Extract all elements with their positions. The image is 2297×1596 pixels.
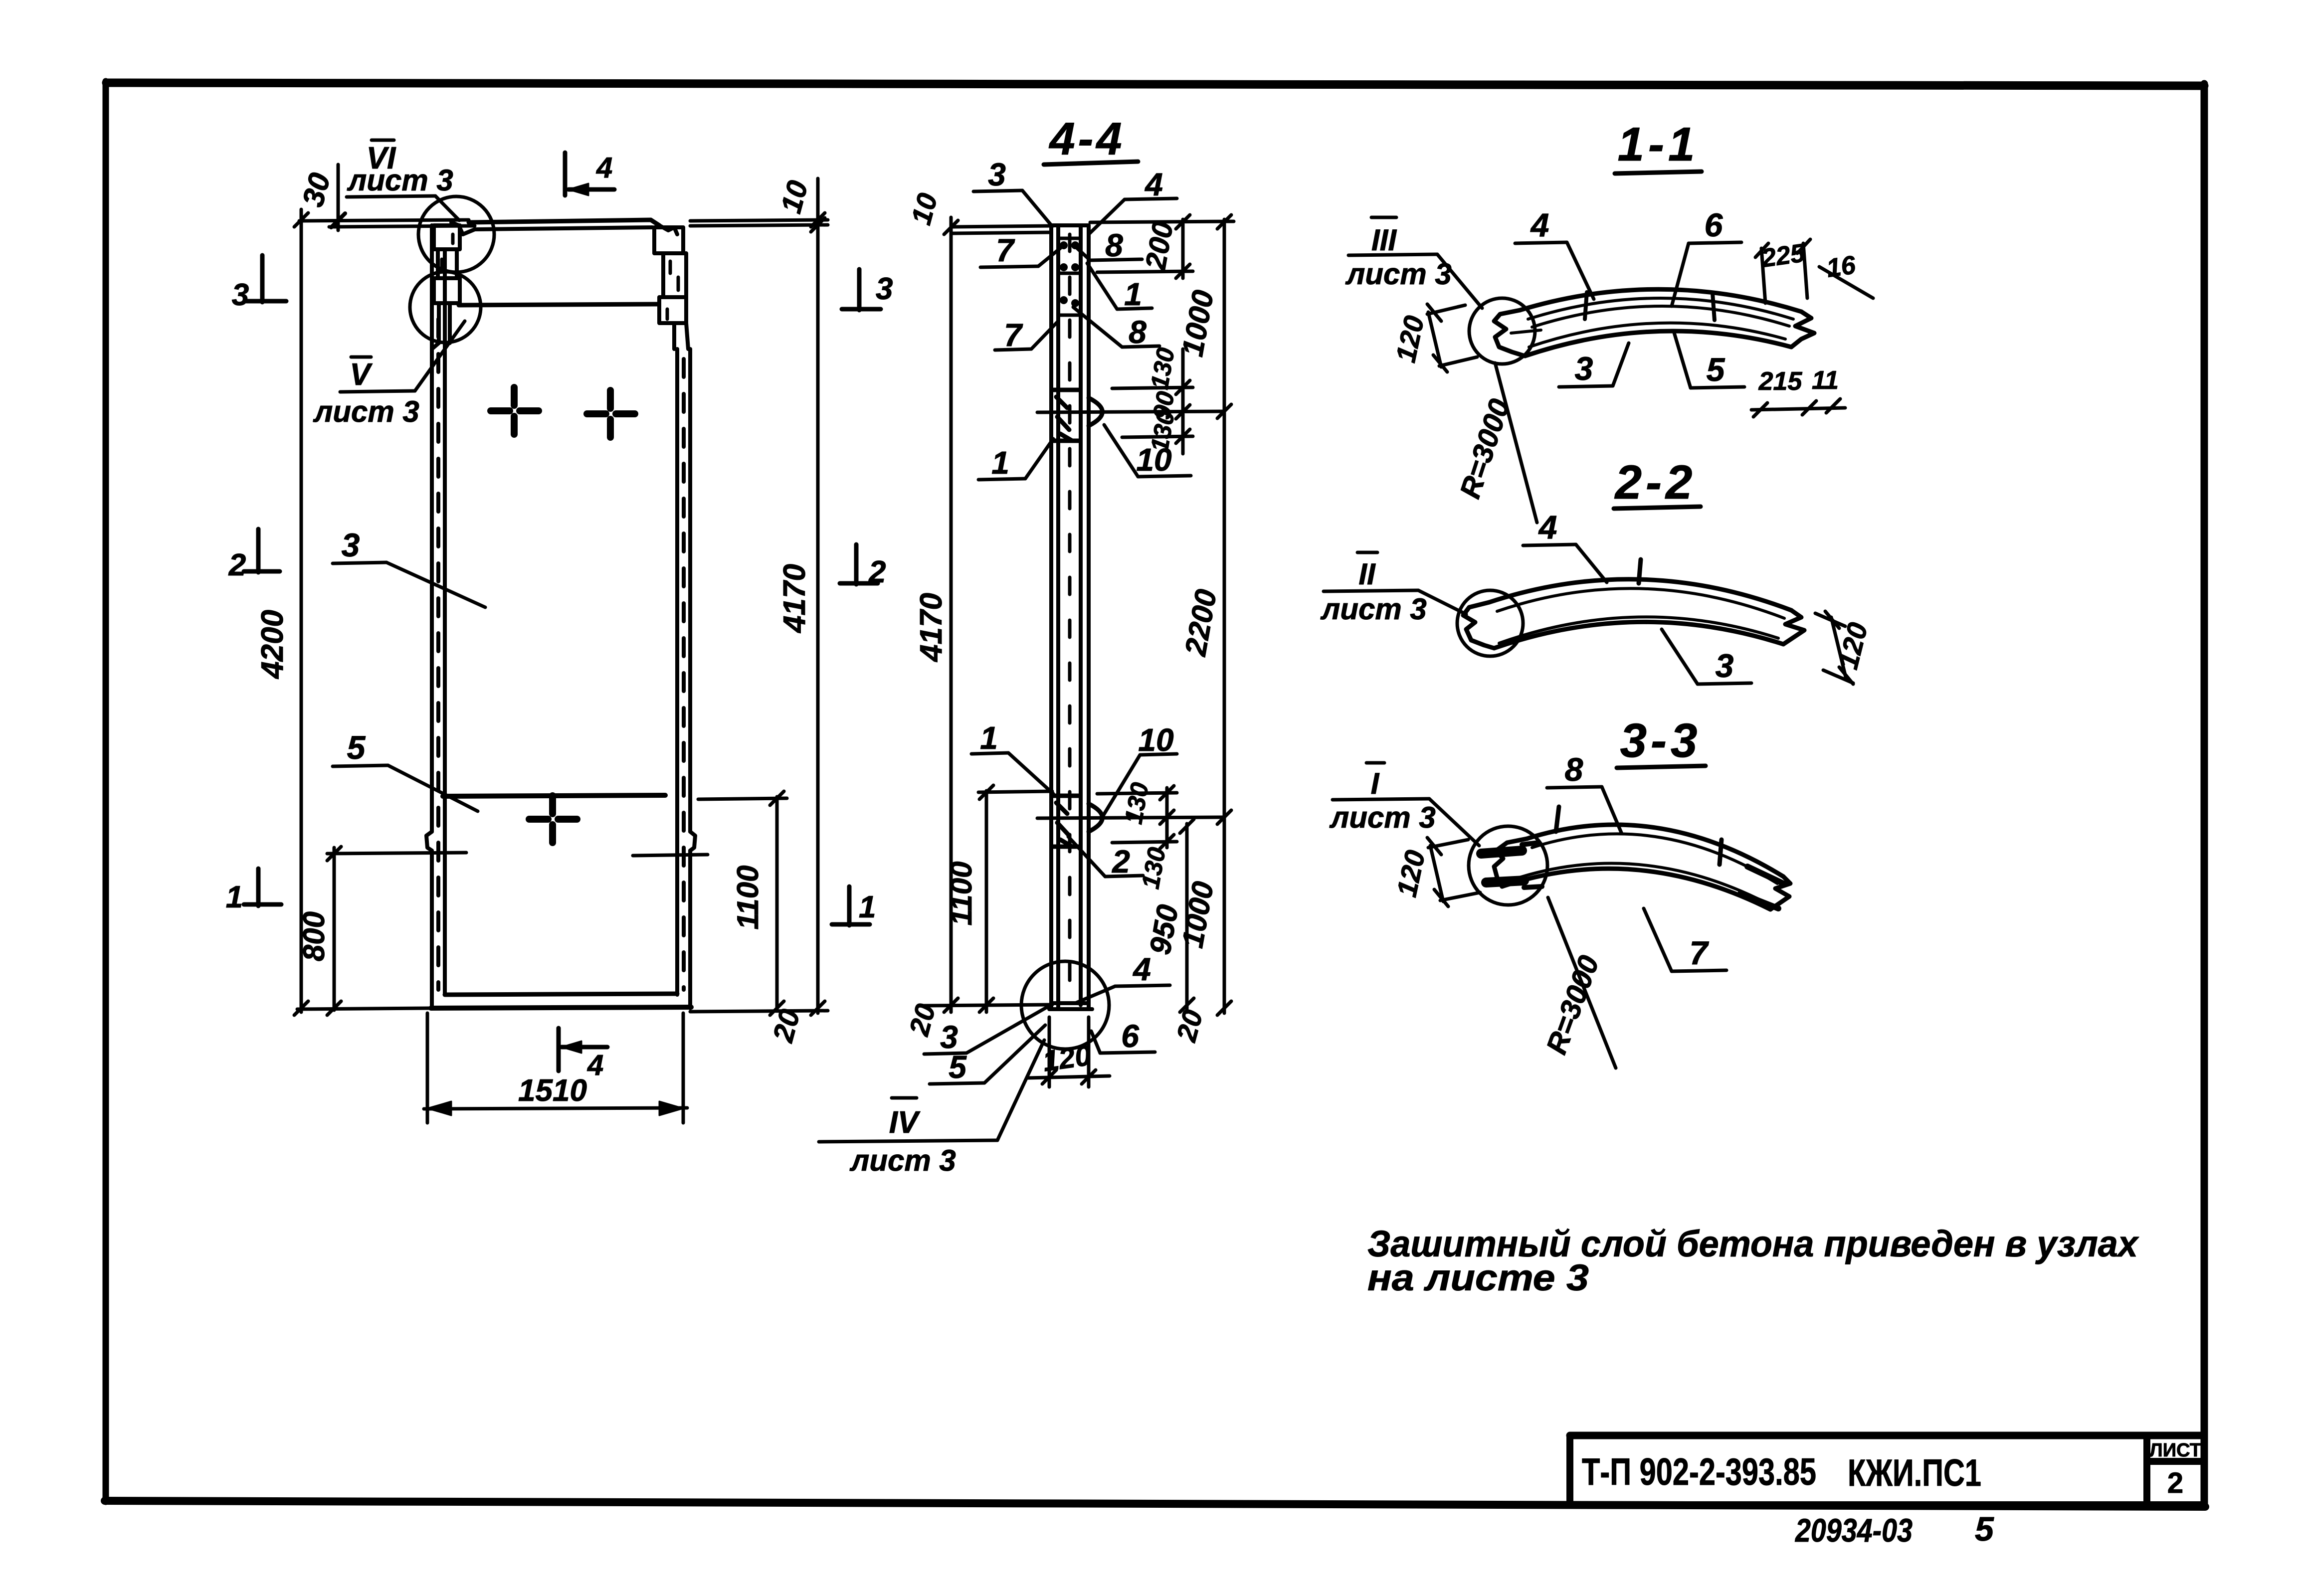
node circle II	[1457, 590, 1523, 656]
dim 120 left 3-3	[1427, 838, 1480, 906]
callout 5 panel	[333, 765, 478, 811]
svg-text:1: 1	[859, 890, 876, 924]
band inner lines 3-3	[1507, 834, 1777, 902]
label IV list 3	[819, 1040, 1044, 1142]
loop embed plate bottom	[1053, 796, 1079, 847]
svg-text:4: 4	[1530, 206, 1549, 243]
svg-text:IV: IV	[889, 1105, 921, 1140]
svg-text:10: 10	[905, 190, 944, 228]
second embed anchors	[1058, 296, 1081, 315]
callout 10 mid 44	[1103, 754, 1177, 816]
svg-text:120: 120	[1390, 848, 1431, 899]
section mark 4 top	[565, 153, 614, 195]
section mark 2 right	[840, 544, 878, 584]
section mark 4 bottom	[559, 1028, 607, 1071]
svg-text:2: 2	[2167, 1467, 2183, 1499]
label VI list 3	[347, 140, 459, 220]
label III list 3	[1348, 217, 1482, 308]
dim 120 bottom	[1027, 1017, 1110, 1087]
dim cluster 130-90-130 top loop	[1112, 349, 1193, 454]
svg-text:1: 1	[1124, 276, 1142, 312]
callout 4 top 44	[1090, 198, 1177, 233]
svg-text:800: 800	[297, 911, 331, 961]
band outline 3-3	[1494, 825, 1790, 909]
svg-text:200: 200	[1139, 219, 1179, 273]
callout 8 upper 44	[1077, 248, 1142, 260]
callout 2 44	[1068, 837, 1143, 877]
callout 6 44	[1091, 1031, 1155, 1053]
panel bottom outer line	[431, 1007, 691, 1008]
callout 4 1-1	[1515, 242, 1594, 299]
panel left edge hidden dashes	[436, 319, 440, 990]
svg-text:4: 4	[1538, 509, 1557, 545]
svg-text:1100: 1100	[945, 861, 978, 925]
svg-text:3: 3	[1575, 350, 1593, 387]
band outline 2-2	[1463, 579, 1804, 648]
callout 4 2-2	[1523, 544, 1607, 582]
strip centre dashes	[1068, 234, 1072, 997]
panel outline left edge	[426, 225, 445, 1008]
svg-text:10: 10	[774, 177, 814, 216]
svg-text:2: 2	[228, 548, 246, 582]
section mark 1 left	[244, 869, 281, 906]
callout 3 top 44	[973, 190, 1052, 226]
callout 1 lower-left top 44	[978, 439, 1053, 480]
band inner lines 1-1	[1511, 298, 1793, 347]
panel bottom inner line	[445, 994, 677, 995]
dim 120 right 2-2	[1815, 611, 1853, 684]
svg-text:R=3000: R=3000	[1540, 951, 1605, 1059]
svg-text:20: 20	[1170, 1007, 1208, 1045]
callout 7 3-3	[1644, 908, 1726, 971]
svg-text:10: 10	[1138, 722, 1173, 758]
svg-text:1510: 1510	[518, 1073, 587, 1108]
panel outline right edge	[677, 349, 695, 1008]
svg-text:4: 4	[596, 152, 612, 184]
panel right edge hidden dashes	[682, 359, 686, 990]
svg-text:8: 8	[1565, 751, 1583, 788]
bar tick marks 1-1	[1585, 292, 1715, 320]
title block box	[1570, 1435, 2204, 1505]
label II list 3	[1324, 552, 1466, 614]
svg-text:на листе 3: на листе 3	[1367, 1257, 1589, 1298]
dim extension top y441	[299, 220, 469, 221]
top embed plate with anchors	[1058, 238, 1081, 273]
svg-text:III: III	[1371, 223, 1397, 257]
weld ticks 3-3	[1556, 807, 1722, 865]
panel top cap bottom line	[459, 304, 658, 305]
label I list 3	[1333, 763, 1479, 846]
callout 3 1-1	[1559, 343, 1629, 387]
node circle III	[1469, 298, 1535, 364]
dim 120 left 1-1	[1427, 304, 1477, 372]
svg-text:4170: 4170	[914, 593, 949, 663]
svg-text:4170: 4170	[777, 564, 812, 634]
callout 10 top 44	[1104, 425, 1191, 477]
R=3000 leader 1-1	[1495, 363, 1537, 523]
svg-text:4-4: 4-4	[1049, 114, 1125, 165]
callout 1 mid 44	[971, 753, 1053, 794]
svg-text:950: 950	[1143, 902, 1184, 957]
strip outline	[1049, 225, 1092, 1009]
svg-text:7: 7	[1690, 934, 1710, 971]
svg-text:1100: 1100	[731, 865, 765, 929]
node circle V	[410, 272, 481, 343]
top right joint detail	[654, 225, 688, 349]
svg-text:120: 120	[1389, 313, 1430, 365]
svg-text:5: 5	[1707, 351, 1725, 388]
dim 215 11 bottom right 1-1	[1751, 399, 1845, 417]
lifting loop bottom	[1089, 804, 1103, 832]
svg-text:Т-П 902-2-393.85: Т-П 902-2-393.85	[1582, 1451, 1816, 1493]
svg-text:7: 7	[996, 232, 1015, 268]
dim 30 vertical line	[337, 165, 340, 230]
panel top cap second line	[475, 227, 652, 229]
svg-text:3: 3	[1716, 647, 1734, 684]
svg-text:6: 6	[1121, 1018, 1139, 1054]
svg-text:120: 120	[1041, 1039, 1093, 1078]
svg-text:4: 4	[1144, 167, 1163, 202]
svg-text:1-1: 1-1	[1618, 118, 1699, 171]
dim 800 line	[327, 847, 466, 1015]
centre mark cross 1	[491, 387, 539, 434]
loop embed plate top	[1053, 390, 1079, 441]
callout 7 upper 44	[980, 248, 1060, 267]
svg-text:16: 16	[1825, 250, 1858, 283]
callout 7 second 44	[995, 321, 1058, 350]
svg-text:7: 7	[1004, 317, 1023, 353]
callout 4 bottom 44	[1075, 985, 1170, 1003]
svg-text:лист 3: лист 3	[1345, 257, 1452, 291]
svg-text:лист 3: лист 3	[313, 395, 419, 428]
dim 4200 line	[294, 209, 432, 1015]
node circle I	[1469, 826, 1547, 905]
svg-text:8: 8	[1129, 314, 1147, 350]
dim 1510 line	[424, 1013, 687, 1123]
dim 4170 line 44	[924, 217, 1052, 1012]
dim 950 line	[1180, 819, 1194, 1012]
panel top cap outer line	[469, 220, 659, 225]
band inner lines 2-2	[1497, 588, 1784, 643]
svg-text:5: 5	[347, 729, 366, 766]
svg-text:215: 215	[1758, 367, 1803, 396]
centre mark cross 3	[529, 796, 577, 843]
svg-text:3: 3	[988, 157, 1006, 192]
callout 8 second 44	[1073, 307, 1159, 347]
svg-text:R=3000: R=3000	[1454, 395, 1516, 503]
svg-text:4200: 4200	[255, 610, 290, 680]
dim 225 16 top right 1-1	[1755, 239, 1873, 303]
svg-text:2: 2	[1112, 844, 1130, 880]
svg-text:225: 225	[1759, 238, 1807, 273]
svg-text:ЛИСТ: ЛИСТ	[2149, 1440, 2201, 1461]
svg-text:6: 6	[1705, 206, 1723, 243]
node circle IV	[1021, 961, 1109, 1049]
section mark 3 left	[246, 255, 286, 302]
lifting loop top	[1089, 398, 1103, 426]
callout 6 1-1	[1672, 242, 1741, 306]
callout 3 panel	[333, 562, 485, 607]
svg-text:2200: 2200	[1178, 587, 1223, 659]
svg-text:30: 30	[296, 170, 337, 210]
svg-text:11: 11	[1812, 366, 1839, 395]
dim cluster bottom loop 130 130	[1097, 786, 1177, 849]
svg-text:лист 3: лист 3	[347, 164, 453, 197]
svg-text:130: 130	[1145, 346, 1180, 391]
svg-text:лист 3: лист 3	[849, 1144, 956, 1177]
svg-text:2: 2	[868, 555, 886, 589]
svg-text:II: II	[1358, 557, 1376, 591]
dim 1000 line top 44	[1217, 215, 1231, 1015]
svg-text:1: 1	[980, 720, 998, 756]
svg-text:20934-03: 20934-03	[1794, 1512, 1913, 1549]
svg-text:3-3: 3-3	[1620, 714, 1702, 767]
callout 5 1-1	[1674, 331, 1744, 388]
svg-text:3: 3	[232, 278, 249, 312]
weld tick 2-2	[1639, 559, 1641, 583]
svg-text:лист 3: лист 3	[1320, 592, 1427, 626]
section mark 3 right	[842, 269, 881, 310]
svg-text:4: 4	[587, 1049, 603, 1081]
svg-text:130: 130	[1136, 845, 1171, 891]
callout 5 bottom 44	[930, 1025, 1045, 1084]
callout 3 bottom 44	[924, 1004, 1052, 1054]
section mark 2 left	[244, 529, 280, 572]
svg-text:КЖИ.ПС1: КЖИ.ПС1	[1848, 1452, 1981, 1494]
svg-text:5: 5	[949, 1049, 967, 1085]
svg-text:8: 8	[1105, 227, 1123, 263]
callout 8 3-3	[1547, 787, 1622, 834]
svg-text:V: V	[350, 357, 373, 392]
svg-text:3: 3	[876, 272, 893, 306]
dim 4170 line right	[690, 178, 828, 1015]
svg-text:4: 4	[1132, 951, 1151, 987]
callout 3 2-2	[1662, 629, 1751, 684]
node circle VI	[418, 196, 494, 272]
dim 1100 line	[633, 791, 787, 1015]
band outline 1-1	[1494, 289, 1814, 356]
dim 1100 line 44	[978, 785, 1052, 1012]
section mark 1 right	[832, 887, 870, 925]
svg-text:1: 1	[991, 445, 1009, 481]
svg-text:I: I	[1371, 767, 1380, 800]
svg-text:5: 5	[1975, 1510, 1994, 1548]
svg-text:1: 1	[226, 880, 243, 914]
svg-text:2-2: 2-2	[1614, 456, 1697, 509]
end channel marks 3-3 left	[1481, 851, 1524, 883]
R=3000 leader 3-3	[1548, 897, 1616, 1068]
dim 200 line 44	[1090, 215, 1234, 278]
svg-text:10: 10	[1136, 442, 1171, 478]
centre mark cross 2	[587, 390, 635, 437]
svg-text:3: 3	[342, 527, 360, 563]
end channel marks 3-3 right	[1740, 867, 1783, 908]
label V list 3	[340, 321, 465, 392]
callout 1 upper 44	[1087, 263, 1152, 309]
zone 5 boundary line	[443, 795, 665, 796]
svg-text:лист 3: лист 3	[1329, 801, 1436, 834]
top left joint detail	[432, 222, 475, 349]
